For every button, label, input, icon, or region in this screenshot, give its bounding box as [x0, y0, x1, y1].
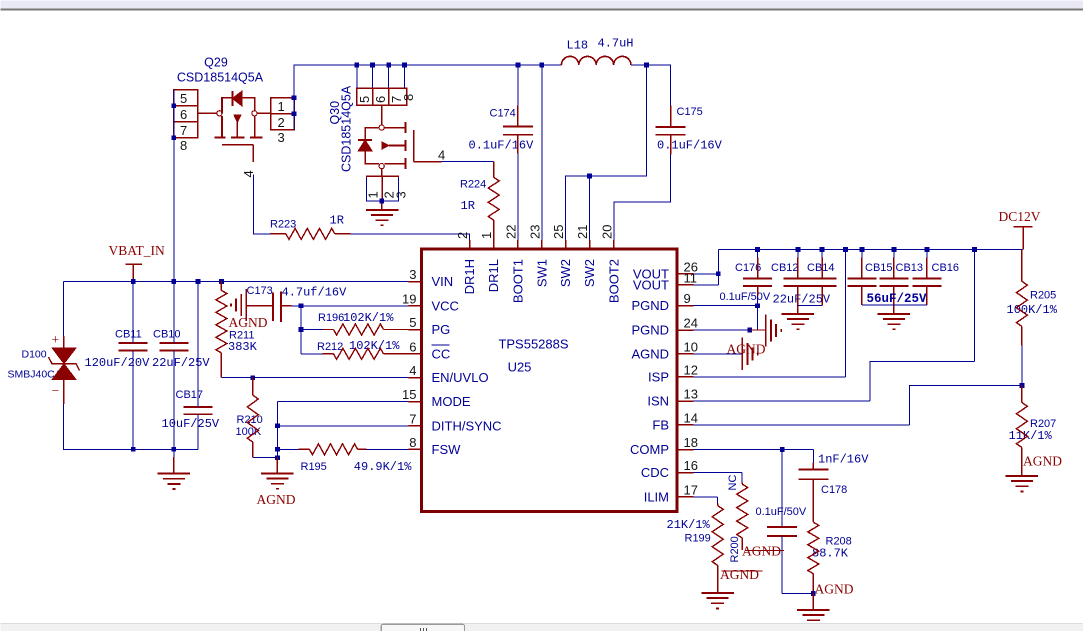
svg-text:CB10: CB10 [153, 329, 181, 341]
svg-text:2: 2 [278, 115, 285, 130]
svg-text:CB12: CB12 [771, 262, 799, 274]
svg-text:CC: CC [432, 346, 451, 361]
svg-text:6: 6 [180, 107, 187, 122]
Q30 channel bars [404, 122, 406, 169]
svg-text:NC: NC [727, 475, 739, 491]
svg-text:4: 4 [438, 148, 445, 163]
svg-text:D100: D100 [22, 349, 47, 361]
U25 pin 26 VOUT stub [677, 273, 694, 275]
wire R205 bottom to FB junction [1021, 345, 1023, 385]
power pin DC12V [1014, 227, 1033, 250]
svg-text:13: 13 [684, 387, 698, 402]
svg-text:+: + [52, 332, 60, 347]
scrollbar track [1, 623, 1083, 631]
svg-text:DR1H: DR1H [462, 259, 477, 294]
svg-text:4: 4 [409, 363, 416, 378]
svg-text:ILIM: ILIM [644, 489, 669, 504]
svg-text:24: 24 [684, 316, 698, 331]
U25 pin 10 AGND stub [677, 353, 694, 355]
wire L18 right to C175 top [631, 65, 671, 105]
svg-text:3: 3 [278, 130, 285, 145]
svg-text:VBAT_IN: VBAT_IN [109, 243, 165, 258]
svg-text:8: 8 [180, 138, 187, 153]
svg-text:AGND: AGND [1023, 454, 1062, 469]
svg-text:19: 19 [402, 291, 416, 306]
svg-text:20: 20 [599, 225, 614, 239]
svg-text:14: 14 [684, 410, 698, 425]
wire FSW line left [277, 448, 298, 450]
svg-text:16: 16 [684, 458, 698, 473]
svg-text:49.9K/1%: 49.9K/1% [354, 460, 412, 474]
svg-text:R212: R212 [317, 341, 343, 353]
svg-text:R224: R224 [460, 179, 486, 191]
wire MODE line [277, 401, 408, 403]
window top strip [1, 1, 1083, 9]
svg-text:5: 5 [180, 91, 187, 106]
svg-text:102K/1%: 102K/1% [343, 311, 394, 325]
svg-text:4.7uf/16V: 4.7uf/16V [282, 286, 348, 300]
svg-text:CB17: CB17 [176, 389, 204, 401]
Q30 body diode [358, 139, 372, 141]
svg-text:BOOT1: BOOT1 [510, 259, 525, 303]
svg-text:ISN: ISN [647, 394, 669, 409]
ground AGND below R210 [276, 458, 278, 474]
U25 pin 19 VCC stub [409, 305, 422, 307]
svg-text:88.7K: 88.7K [812, 547, 849, 561]
svg-text:7: 7 [409, 411, 416, 426]
svg-text:R196: R196 [318, 312, 344, 324]
ground AGND at C173 (rotated left) [231, 289, 246, 321]
U25 pin 9 PGND stub [677, 305, 694, 307]
svg-text:VCC: VCC [432, 298, 459, 313]
U25 pin 3 VIN stub [409, 281, 422, 283]
svg-text:SW2: SW2 [582, 259, 597, 287]
wire Q30 source net [367, 178, 399, 202]
svg-text:8: 8 [409, 435, 416, 450]
svg-text:5: 5 [357, 96, 372, 103]
U25 pin 1 DR1L stub [493, 240, 495, 249]
U25 pin 23 SW1 stub [541, 240, 543, 249]
svg-text:CB13: CB13 [896, 262, 924, 274]
svg-text:4.7uH: 4.7uH [598, 37, 634, 51]
svg-text:1: 1 [479, 232, 494, 239]
svg-text:VIN: VIN [432, 274, 454, 289]
svg-text:12: 12 [684, 362, 698, 377]
ground below R208 [812, 594, 814, 611]
svg-text:TPS55288S: TPS55288S [498, 337, 568, 352]
svg-text:PG: PG [432, 322, 451, 337]
svg-text:R200: R200 [729, 536, 741, 562]
svg-text:1R: 1R [330, 214, 344, 228]
wire AGND pin10 [694, 353, 743, 355]
wire FSW line right [367, 448, 409, 450]
U25 pin 17 ILIM stub [677, 496, 694, 498]
wire divider vertical [300, 306, 302, 354]
CC overline [432, 344, 450, 346]
U25 pin 12 ISP stub [677, 376, 694, 378]
U25 pin 5 PG stub [409, 329, 422, 331]
svg-text:AGND: AGND [720, 567, 759, 582]
ground below CB12/CB14 [782, 314, 814, 329]
U25 pin 14 FB stub [677, 424, 694, 426]
svg-text:100K/1%: 100K/1% [1007, 303, 1058, 317]
wire CDC to R200 [694, 473, 743, 483]
svg-text:FSW: FSW [432, 442, 462, 457]
wire VOUT rail [718, 249, 1023, 251]
svg-text:DC12V: DC12V [999, 209, 1041, 224]
wire COMP RC bottom [782, 593, 813, 595]
svg-text:8: 8 [401, 94, 416, 101]
svg-text:11: 11 [684, 270, 698, 285]
transistor Q29 MOSFET symbol [198, 112, 217, 114]
wire SW2 net from bus [566, 65, 647, 240]
Q30 pins 5-8 connector box [357, 88, 407, 105]
svg-text:100K: 100K [236, 426, 262, 438]
wire PGND pin24 line [694, 329, 750, 331]
ground below R207 [1006, 476, 1038, 491]
svg-text:0.1uF/50V: 0.1uF/50V [720, 291, 771, 303]
svg-text:PGND: PGND [631, 323, 669, 338]
wire left branch down to D100 [63, 282, 65, 337]
junction dots Q29 right box [292, 95, 297, 100]
svg-text:23: 23 [527, 225, 542, 239]
svg-text:PGND: PGND [631, 298, 669, 313]
svg-text:R195: R195 [301, 461, 327, 473]
svg-text:120uF/20V: 120uF/20V [85, 356, 151, 370]
wire DITH/SYNC line [277, 425, 408, 427]
U25 pin 21 SW2 stub [589, 240, 591, 249]
svg-text:R223: R223 [270, 219, 296, 231]
Q30 arrow [382, 142, 389, 150]
svg-text:CSD18514Q5A: CSD18514Q5A [340, 85, 354, 172]
svg-text:0.1uF/16V: 0.1uF/16V [657, 138, 723, 152]
svg-text:DR1L: DR1L [486, 259, 501, 292]
svg-text:R199: R199 [685, 533, 711, 545]
ground below CB13 [878, 314, 910, 329]
op-amp U25 IC body TPS55288S [422, 249, 678, 512]
Q29 gate [222, 145, 253, 162]
scrollbar thumb [381, 624, 464, 631]
svg-text:CDC: CDC [641, 465, 669, 480]
svg-text:C178: C178 [821, 484, 847, 496]
svg-text:21K/1%: 21K/1% [667, 518, 711, 532]
junction dots on bus [354, 63, 359, 68]
svg-text:VOUT: VOUT [633, 277, 669, 292]
svg-text:1: 1 [278, 99, 285, 114]
wire C175 bottom / BOOT2 [614, 155, 671, 240]
svg-text:ISP: ISP [648, 369, 669, 384]
svg-text:1R: 1R [461, 199, 475, 213]
svg-text:EN/UVLO: EN/UVLO [432, 370, 489, 385]
wire C174 top to bus [517, 65, 519, 105]
svg-text:10: 10 [684, 339, 698, 354]
wire CB14 to CB12 bottom [798, 305, 822, 307]
U25 pin 4 EN/UVLO stub [409, 377, 422, 379]
svg-text:SW2: SW2 [558, 259, 573, 287]
U25 pin 2 DR1H stub [469, 240, 471, 249]
svg-text:18: 18 [684, 435, 698, 450]
svg-text:1nF/16V: 1nF/16V [818, 453, 869, 467]
ground AGND (pin24/C176, rotated right) [766, 314, 782, 346]
svg-text:CSD18514Q5A: CSD18514Q5A [177, 71, 264, 85]
wire CB11 leads [132, 282, 134, 450]
wire R210 bottom to gnd vertical [253, 457, 278, 459]
wire R223 to DR1H [351, 234, 470, 240]
main ground symbol [173, 449, 175, 457]
svg-text:56uF/25V: 56uF/25V [867, 292, 928, 306]
wire Q29 left box to VBAT rail [173, 90, 175, 282]
Q30 pins 1-3 connector box [367, 176, 399, 201]
wire ISP net [694, 250, 846, 377]
Q29 body diode [232, 91, 234, 106]
wire EN/UVLO line [221, 377, 408, 379]
svg-text:C174: C174 [490, 108, 516, 120]
wire FB net [694, 386, 1022, 425]
svg-text:Q29: Q29 [204, 56, 228, 70]
wire Q29 gate pin4 to R223 [254, 175, 271, 234]
svg-text:L18: L18 [567, 39, 589, 53]
wire PGND pin9 line [694, 305, 758, 307]
svg-text:CB14: CB14 [807, 262, 835, 274]
Q30 gate [414, 130, 442, 162]
wire CB10 leads [173, 282, 175, 450]
wire SW1 bus to pin [541, 65, 543, 240]
svg-text:MODE: MODE [432, 394, 471, 409]
wire COMP net [694, 450, 814, 463]
U25 pin 7 DITH/SYNC stub [409, 425, 422, 427]
svg-text:AGND: AGND [815, 582, 854, 597]
Q29 pins 5-8 connector box [174, 90, 198, 138]
Q30 MOSFET symbol [381, 105, 383, 125]
svg-text:R205: R205 [1030, 290, 1056, 302]
svg-text:AGND: AGND [229, 315, 268, 330]
Q29 arrow [234, 115, 241, 123]
svg-text:AGND: AGND [631, 346, 669, 361]
svg-text:9: 9 [684, 291, 691, 306]
svg-text:17: 17 [684, 482, 698, 497]
wire CB17 leads [197, 282, 199, 450]
wire Q30 pins 5-8 to bus [357, 65, 405, 88]
U25 pin 25 SW2 stub [565, 240, 567, 249]
svg-text:22uF/25V: 22uF/25V [152, 356, 210, 370]
svg-text:0.1uF/50V: 0.1uF/50V [756, 506, 807, 518]
wire PG line left [301, 329, 323, 331]
U25 pin 18 COMP stub [677, 449, 694, 451]
svg-text:U25: U25 [508, 360, 532, 375]
wire top bus (Q29/Q30 drain to L18) [294, 65, 561, 130]
U25 pin 6 CC stub [409, 353, 422, 355]
svg-text:25: 25 [551, 225, 566, 239]
svg-text:BOOT2: BOOT2 [606, 259, 621, 303]
svg-text:0.1uF/16V: 0.1uF/16V [469, 138, 535, 152]
wire VBAT rail [64, 281, 409, 283]
Q30 source ground [381, 201, 383, 210]
wire ILIM to R199 [694, 497, 718, 504]
U25 pin 13 ISN stub [677, 400, 694, 402]
U25 pin 16 CDC stub [677, 472, 694, 474]
svg-text:11K/1%: 11K/1% [1009, 429, 1053, 443]
wire VCC line [292, 305, 409, 307]
wire CC line left [301, 353, 323, 355]
svg-text:383K: 383K [228, 340, 258, 354]
svg-text:10uF/25V: 10uF/25V [162, 417, 220, 431]
U25 pin 22 BOOT1 stub [517, 240, 519, 249]
svg-text:DITH/SYNC: DITH/SYNC [432, 418, 502, 433]
wire C174 bottom to BOOT1 [517, 153, 519, 240]
wire ISN net [694, 250, 975, 402]
U25 pin 15 MODE stub [409, 401, 422, 403]
svg-text:6: 6 [409, 339, 416, 354]
svg-text:3: 3 [394, 191, 409, 198]
svg-text:CB15: CB15 [865, 262, 893, 274]
svg-text:6: 6 [373, 96, 388, 103]
junction dots Q29 left box [171, 103, 176, 108]
wire D100 bottom to ground rail [64, 404, 199, 450]
svg-text:CB16: CB16 [932, 262, 960, 274]
power pin VBAT_IN [126, 264, 143, 281]
Q29 pins 1-3 connector box [271, 98, 295, 130]
Q29 channel bars [215, 136, 263, 138]
ground AGND (pin10, rotated right) [742, 338, 758, 370]
svg-text:−: − [52, 383, 60, 398]
svg-text:FB: FB [652, 417, 669, 432]
svg-text:3: 3 [409, 267, 416, 282]
svg-text:C173: C173 [247, 285, 273, 297]
svg-text:5: 5 [409, 315, 416, 330]
svg-text:SW1: SW1 [534, 259, 549, 287]
svg-text:21: 21 [575, 225, 590, 239]
svg-text:2: 2 [455, 232, 470, 239]
svg-text:C175: C175 [677, 106, 703, 118]
svg-text:22: 22 [503, 225, 518, 239]
svg-text:15: 15 [402, 387, 416, 402]
svg-text:AGND: AGND [727, 342, 766, 357]
U25 pin 24 PGND stub [677, 329, 694, 331]
U25 pin 8 FSW stub [409, 448, 422, 450]
svg-text:7: 7 [180, 123, 187, 138]
wire CB15/CB16 to CB13 bottom [862, 304, 927, 306]
U25 pin 20 BOOT2 stub [613, 240, 615, 249]
wire MODE/DITH/FSW common vertical [276, 402, 278, 458]
ground below R199 [702, 593, 734, 609]
svg-text:CB11: CB11 [115, 329, 142, 341]
wire Q30 gate to R224 [442, 161, 494, 163]
svg-text:1: 1 [366, 191, 381, 198]
svg-text:AGND: AGND [257, 492, 296, 507]
wire VOUT pin26/11 to rail [694, 250, 719, 285]
wire C176 bottom to PGND pins [757, 286, 759, 296]
svg-text:COMP: COMP [630, 442, 669, 457]
U25 pin 11 VOUT stub [677, 284, 694, 286]
